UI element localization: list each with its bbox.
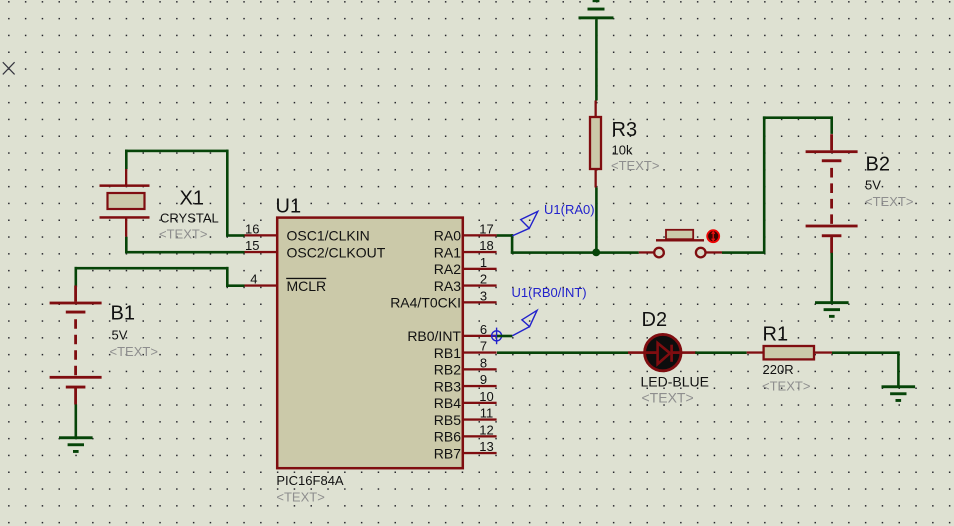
IC U1 PIC16F84A body <box>277 218 463 469</box>
wire crystal bottom to OSC2 <box>125 237 245 254</box>
voltage probe U1(RB0/INT) <box>512 310 537 336</box>
svg-text:RB0/INT: RB0/INT <box>407 328 461 344</box>
U1 left pin stubs <box>245 234 278 286</box>
svg-text:8: 8 <box>480 355 487 370</box>
probe marker at RB0 pin <box>491 328 502 345</box>
svg-text:B2: B2 <box>866 154 890 176</box>
svg-text:U1(RA0): U1(RA0) <box>544 202 595 217</box>
svg-text:PIC16F84A: PIC16F84A <box>276 473 344 488</box>
svg-text:B1: B1 <box>111 303 135 325</box>
battery B2 <box>806 134 858 253</box>
svg-text:17: 17 <box>479 221 493 236</box>
crystal X1 <box>100 169 150 237</box>
svg-text:2: 2 <box>480 272 487 287</box>
svg-text:7: 7 <box>480 339 487 354</box>
svg-text:RB1: RB1 <box>434 345 461 361</box>
svg-text:<TEXT>: <TEXT> <box>159 226 207 241</box>
ground below B1 <box>59 436 93 453</box>
U1 pin numbers <box>245 221 494 454</box>
power rail symbol (inverted ground) top <box>579 0 614 19</box>
svg-text:13: 13 <box>479 439 493 454</box>
wire RB1 to LED <box>497 351 628 354</box>
svg-text:<TEXT>: <TEXT> <box>276 489 324 504</box>
svg-text:CRYSTAL: CRYSTAL <box>160 210 219 225</box>
wire B2 bottom to ground <box>830 253 833 302</box>
origin marker X <box>3 62 15 74</box>
svg-text:<TEXT>: <TEXT> <box>110 344 158 359</box>
svg-text:RA0: RA0 <box>434 228 461 244</box>
R3 labels <box>611 119 659 173</box>
svg-text:R1: R1 <box>763 323 789 345</box>
resistor R3 <box>590 101 601 188</box>
svg-text:5V: 5V <box>865 178 881 193</box>
LED D2 <box>628 334 697 370</box>
svg-text:RB5: RB5 <box>434 412 461 428</box>
node junction RA0/R3/button <box>592 249 600 257</box>
wire R3 bottom to junction <box>595 188 598 254</box>
U1 value labels <box>276 473 344 504</box>
D2 labels <box>641 309 709 405</box>
B1 labels <box>110 303 158 360</box>
resistor R1 <box>747 346 832 359</box>
svg-text:3: 3 <box>480 288 487 303</box>
svg-text:1: 1 <box>480 255 487 270</box>
svg-text:<TEXT>: <TEXT> <box>611 158 659 173</box>
svg-text:220R: 220R <box>763 362 794 377</box>
svg-text:D2: D2 <box>642 309 668 331</box>
svg-text:<TEXT>: <TEXT> <box>865 194 913 209</box>
svg-text:11: 11 <box>480 406 494 421</box>
svg-text:RB4: RB4 <box>434 395 461 411</box>
svg-text:18: 18 <box>479 238 493 253</box>
ground below B2 <box>815 301 849 318</box>
wire crystal top to OSC1 <box>125 150 245 237</box>
wire RB0 stub <box>497 335 512 338</box>
svg-text:U1: U1 <box>276 196 302 218</box>
svg-text:RB6: RB6 <box>434 429 461 445</box>
U1 pin names <box>287 228 462 462</box>
svg-text:<TEXT>: <TEXT> <box>642 390 694 406</box>
svg-text:12: 12 <box>479 422 493 437</box>
MCLR overline <box>286 278 326 279</box>
svg-text:LED-BLUE: LED-BLUE <box>641 374 709 390</box>
svg-text:OSC2/CLKOUT: OSC2/CLKOUT <box>287 244 386 260</box>
wire LED to R1 <box>695 351 747 354</box>
wire RA0 to junction row <box>497 234 639 254</box>
svg-text:9: 9 <box>480 372 487 387</box>
svg-text:OSC1/CLKIN: OSC1/CLKIN <box>287 228 370 244</box>
battery B1 <box>50 286 102 405</box>
svg-text:5V: 5V <box>112 327 128 342</box>
svg-text:16: 16 <box>245 221 259 236</box>
R1 labels <box>762 323 810 393</box>
svg-text:MCLR: MCLR <box>287 278 327 294</box>
svg-text:4: 4 <box>250 272 257 287</box>
U1 right pin stubs <box>463 234 497 454</box>
wire power rail to R3 <box>595 19 598 100</box>
svg-text:RB2: RB2 <box>434 362 461 378</box>
svg-text:RA3: RA3 <box>434 278 461 294</box>
svg-text:15: 15 <box>245 238 259 253</box>
wire button to B2 top <box>722 116 833 254</box>
B2 labels <box>865 154 913 209</box>
svg-text:RA4/T0CKI: RA4/T0CKI <box>390 295 461 311</box>
svg-text:U1(RB0/INT): U1(RB0/INT) <box>512 285 587 300</box>
svg-text:6: 6 <box>480 322 487 337</box>
push button <box>639 230 722 258</box>
ground right of R1 <box>882 385 916 402</box>
wire R1 to ground <box>832 351 900 386</box>
wire B1 bottom to ground <box>75 404 78 437</box>
voltage probe U1(RA0) <box>512 211 538 236</box>
svg-text:RA2: RA2 <box>434 261 461 277</box>
svg-text:10k: 10k <box>612 143 633 158</box>
svg-text:10: 10 <box>479 389 493 404</box>
svg-text:R3: R3 <box>612 119 638 141</box>
wire B1 top to MCLR <box>75 267 245 287</box>
button actuator marker <box>707 230 719 242</box>
svg-text:RB7: RB7 <box>434 445 461 461</box>
svg-text:X1: X1 <box>180 188 204 210</box>
X1 labels <box>159 188 219 242</box>
svg-text:RB3: RB3 <box>434 378 461 394</box>
svg-text:RA1: RA1 <box>434 244 461 260</box>
svg-text:<TEXT>: <TEXT> <box>762 379 810 394</box>
